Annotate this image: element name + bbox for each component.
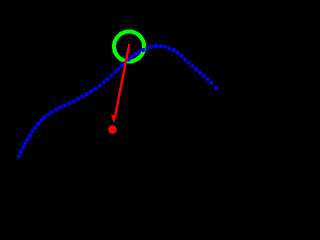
blue dotted curve — [17, 44, 219, 158]
green circle marker — [112, 29, 146, 63]
red arrowhead — [111, 115, 117, 123]
red dot — [108, 125, 117, 134]
red arrow line — [115, 44, 129, 117]
